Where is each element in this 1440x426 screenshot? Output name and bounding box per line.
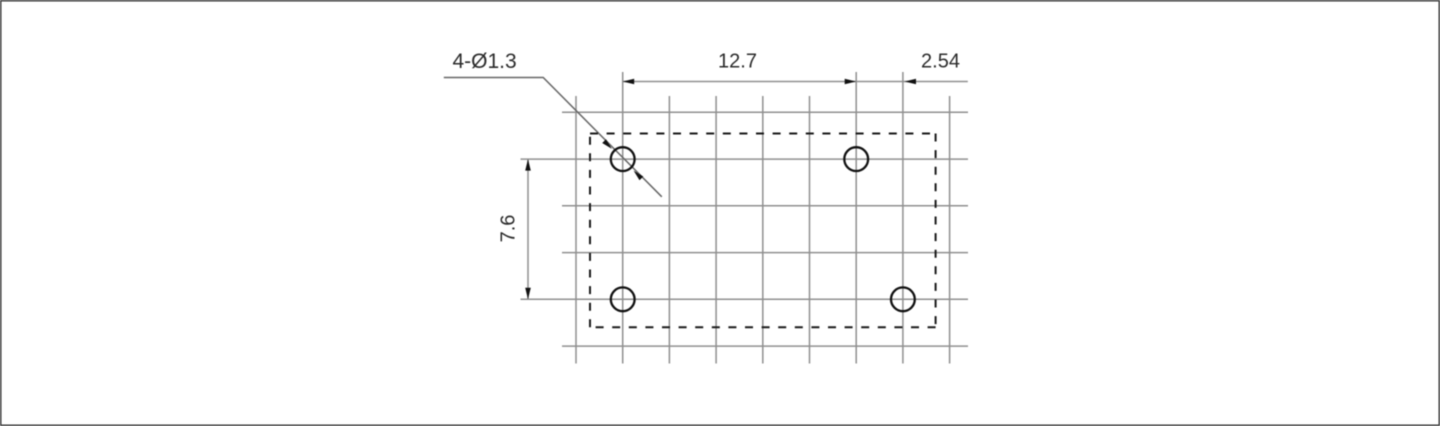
dimension text 7.6 (498, 215, 520, 243)
grid vertical line V4 (715, 96, 717, 364)
callout text 4-diameter 1.3 (453, 50, 517, 73)
grid vertical line V2 / extension line for 12.7 left (622, 72, 624, 364)
grid horizontal line H1 (562, 111, 968, 113)
grid vertical line V9 (949, 96, 951, 364)
component outline (dashed rectangle) top edge (590, 133, 936, 135)
component outline right edge (935, 134, 937, 328)
svg-text:7.6: 7.6 (498, 215, 520, 243)
leader arrowhead lower (points at hole A) (634, 171, 644, 181)
grid horizontal line H2 / hole row 1 / extension line for 7.6 top (521, 158, 969, 160)
arrowhead top of 7.6 (525, 159, 531, 171)
leader line for hole callout 4-O1.3 (444, 78, 662, 197)
arrowhead of 2.54 (905, 79, 917, 85)
leader arrowhead upper (points at hole A) (602, 139, 612, 149)
grid horizontal line H6 (562, 345, 968, 347)
svg-text:12.7: 12.7 (718, 51, 757, 73)
grid horizontal line H3 (562, 205, 968, 207)
arrowhead right of 12.7 (845, 79, 857, 85)
hole B (top-right, 1.3 mm) (844, 147, 868, 171)
dimension text 2.54 (921, 51, 960, 73)
arrowhead bottom of 7.6 (525, 288, 531, 300)
hole D (bottom-right, 1.3 mm) (891, 287, 915, 311)
grid vertical line V1 (575, 96, 577, 364)
grid horizontal line H4 (562, 252, 968, 254)
dimension line 12.7 / 2.54 (top) (623, 81, 968, 83)
dimension line 7.6 (left, vertical) (527, 160, 529, 299)
hole A (top-left, 1.3 mm) (611, 147, 635, 171)
component outline left edge (589, 134, 591, 328)
dimension text 12.7 (718, 51, 757, 73)
grid vertical line V7 / extension line for 12.7 right (855, 72, 857, 364)
arrowhead left of 12.7 (623, 79, 635, 85)
component outline bottom edge (590, 326, 936, 328)
grid vertical line V5 (762, 96, 764, 364)
grid vertical line V8 / extension line for 2.54 (902, 72, 904, 364)
grid vertical line V6 (809, 96, 811, 364)
svg-text:2.54: 2.54 (921, 51, 960, 73)
grid vertical line V3 (668, 96, 670, 364)
hole C (bottom-left, 1.3 mm) (611, 287, 635, 311)
svg-text:4-Ø1.3: 4-Ø1.3 (453, 50, 517, 73)
grid horizontal line H5 / hole row 2 / extension line for 7.6 bottom (521, 298, 969, 300)
